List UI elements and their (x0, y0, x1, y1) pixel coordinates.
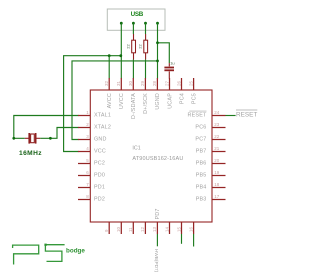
svg-text:XTAL2: XTAL2 (94, 125, 111, 131)
USB pin VBUS (120, 22, 123, 25)
wire PB2 stub extension (193, 234, 195, 247)
svg-text:PC5: PC5 (191, 93, 197, 104)
junction crystal pin1 (12, 137, 15, 140)
wire XTAL1 (14, 116, 79, 139)
svg-text:PB4: PB4 (196, 185, 207, 191)
logo arrow head (44, 244, 46, 246)
svg-text:USB: USB (131, 11, 144, 18)
right pin numbers 24-17 (214, 110, 220, 199)
svg-text:28: 28 (152, 80, 157, 86)
resistor R1 22 (126, 34, 136, 59)
svg-text:1u: 1u (170, 61, 174, 66)
wire cap to GND net (158, 43, 170, 63)
svg-text:PD0: PD0 (94, 173, 105, 179)
svg-text:32: 32 (104, 80, 109, 86)
svg-text:12: 12 (140, 226, 145, 232)
svg-text:VCC: VCC (94, 149, 106, 155)
svg-text:17: 17 (214, 194, 220, 199)
svg-text:RESET: RESET (188, 113, 207, 119)
svg-text:PB5: PB5 (196, 173, 207, 179)
net label RESET overline (236, 109, 257, 111)
svg-text:21: 21 (214, 146, 220, 151)
wire R1 to D- pin (132, 59, 134, 78)
svg-text:PD2: PD2 (94, 197, 105, 203)
USB connector X1 box (107, 9, 165, 30)
svg-text:PB7: PB7 (196, 149, 207, 155)
svg-text:D-/SDATA: D-/SDATA (131, 93, 137, 119)
svg-text:AT90USB162-16AU: AT90USB162-16AU (132, 156, 183, 162)
svg-text:bodge: bodge (66, 248, 85, 255)
svg-text:RESET: RESET (236, 111, 257, 118)
wire R2 to D+ pin (145, 59, 147, 78)
svg-text:IC1: IC1 (132, 146, 140, 152)
svg-text:14: 14 (164, 226, 169, 232)
bottom pin stubs (109, 222, 193, 234)
junction crystal pin2 (49, 137, 52, 140)
logo PS glyph S (45, 245, 64, 262)
junction GND line (156, 60, 159, 63)
left pin numbers 1-8 (86, 110, 89, 199)
right pin names (188, 113, 207, 203)
wire VBUS to UVCC (120, 23, 122, 78)
top pin names (107, 93, 197, 119)
svg-text:27: 27 (164, 80, 169, 86)
svg-text:PB3: PB3 (196, 197, 207, 203)
junction cap/GND (156, 41, 159, 44)
wire AVCC vertical (108, 56, 110, 79)
svg-text:15: 15 (176, 226, 181, 232)
svg-text:PC6: PC6 (195, 125, 206, 131)
wire D+ USB to R2 (145, 23, 147, 34)
svg-text:PD1: PD1 (94, 185, 105, 191)
wire GND net horizontal (72, 61, 158, 140)
svg-text:PD7: PD7 (155, 208, 161, 219)
left pin names (94, 113, 111, 203)
svg-text:31: 31 (116, 80, 121, 86)
svg-text:24: 24 (214, 110, 220, 115)
left pin stubs (78, 116, 90, 200)
svg-text:16MHz: 16MHz (19, 150, 42, 157)
IC1 AT90USB162 body (90, 90, 212, 222)
svg-text:13: 13 (152, 226, 157, 232)
svg-text:11: 11 (128, 227, 133, 232)
bottom pin numbers 9-16 (104, 226, 193, 232)
svg-text:GND: GND (94, 137, 107, 143)
wire RESET net (226, 115, 236, 117)
svg-text:20: 20 (214, 158, 220, 163)
svg-text:UCAP: UCAP (167, 93, 173, 109)
svg-text:UVCC: UVCC (119, 93, 125, 109)
svg-text:29: 29 (140, 80, 145, 86)
svg-text:18: 18 (214, 182, 220, 187)
svg-text:XTAL1: XTAL1 (94, 113, 111, 119)
logo PS glyph P (13, 245, 39, 264)
svg-text:PC7: PC7 (195, 137, 206, 143)
svg-text:22: 22 (214, 134, 220, 139)
wire XTAL2 (40, 128, 78, 139)
svg-text:26: 26 (176, 80, 181, 86)
svg-text:19: 19 (214, 170, 220, 175)
svg-text:25: 25 (188, 80, 193, 86)
svg-text:PC4: PC4 (179, 93, 185, 104)
right pin stubs (212, 116, 226, 200)
wire PD7 net (156, 234, 158, 246)
capacitor C1 1u (164, 61, 174, 79)
svg-text:PC2: PC2 (94, 161, 105, 167)
svg-text:16: 16 (188, 226, 193, 232)
crystal Q1 16MHz (19, 133, 42, 157)
svg-text:30: 30 (128, 80, 133, 86)
USB pin GND (156, 22, 159, 25)
junction VCC/VBUS (119, 54, 122, 57)
USB pin D+ (144, 22, 147, 25)
svg-text:HWB(PD7): HWB(PD7) (154, 249, 159, 273)
wire VCC net horizontal (64, 56, 121, 152)
svg-text:22: 22 (138, 44, 143, 49)
wire PB1 stub extension (181, 234, 183, 244)
svg-text:23: 23 (214, 122, 220, 127)
wire D- USB to R1 (132, 23, 134, 34)
resistor R2 22 (138, 34, 148, 59)
svg-text:AVCC: AVCC (107, 93, 113, 108)
junction VCC/AVCC (108, 54, 111, 57)
top pin numbers 32-25 (104, 80, 193, 86)
svg-text:PB6: PB6 (196, 161, 207, 167)
svg-text:10: 10 (116, 226, 121, 232)
USB pin D- (132, 22, 135, 25)
wire GND vertical (157, 23, 159, 78)
svg-text:UGND: UGND (155, 93, 161, 110)
svg-text:22: 22 (126, 44, 131, 49)
RESET pin name overline (189, 110, 206, 112)
svg-text:D+/SCK: D+/SCK (143, 93, 149, 114)
top pin stubs (109, 78, 193, 90)
